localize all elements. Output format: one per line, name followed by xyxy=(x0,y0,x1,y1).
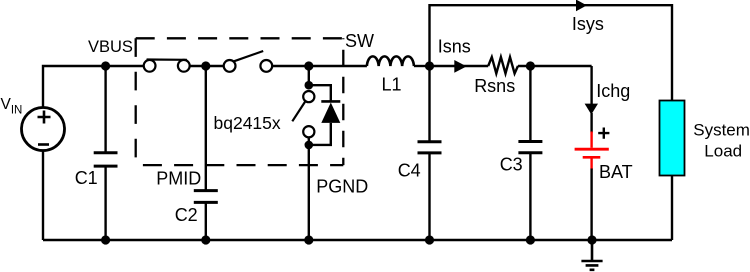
node PMID junction dot xyxy=(201,61,210,70)
svg-text:PGND: PGND xyxy=(316,176,368,196)
ground rail xyxy=(43,239,672,241)
VIN plus sign xyxy=(38,111,51,124)
diode body cathode bar xyxy=(321,100,340,103)
battery BAT negative plate xyxy=(583,156,601,159)
svg-text:Isns: Isns xyxy=(438,37,471,57)
wire C3 lower lead xyxy=(529,153,531,240)
wire diode branch top xyxy=(309,85,331,101)
wire Isns segment xyxy=(430,65,489,67)
switch high-side 1 blade (closed) xyxy=(147,58,187,60)
battery BAT positive plate xyxy=(575,148,609,151)
switch high-side 1 left terminal xyxy=(144,60,156,72)
Isns arrow xyxy=(454,60,466,73)
svg-text:C2: C2 xyxy=(175,205,198,225)
switch low-side top terminal xyxy=(303,91,314,102)
wire C3 upper lead xyxy=(529,66,531,142)
wire battery to ground rail xyxy=(590,169,592,241)
node ground rail dot BAT xyxy=(587,235,596,244)
node Isns junction dot xyxy=(425,61,434,70)
wire C4 lower lead xyxy=(428,153,430,240)
wire VIN bottom to ground rail xyxy=(42,151,44,241)
svg-text:Load: Load xyxy=(704,141,742,160)
svg-text:VBUS: VBUS xyxy=(88,38,133,56)
switch high-side 2 left terminal xyxy=(224,60,236,72)
svg-text:C4: C4 xyxy=(398,161,421,181)
VIN minus sign xyxy=(38,143,49,146)
voltage source VIN xyxy=(22,108,65,151)
diode body triangle xyxy=(321,103,340,123)
wire low-side bottom lead to PGND xyxy=(308,137,310,240)
switch high-side 2 blade (open) xyxy=(234,51,263,61)
capacitor C4 xyxy=(418,142,442,153)
wire L1 to Isns node xyxy=(414,65,430,67)
wire battery branch mid xyxy=(590,113,592,133)
inductor L1 xyxy=(367,56,414,66)
node SW junction dot xyxy=(304,61,313,70)
svg-text:Isys: Isys xyxy=(572,14,604,34)
svg-text:Ichg: Ichg xyxy=(596,81,630,101)
capacitor C3 xyxy=(518,142,542,153)
capacitor C2 xyxy=(194,191,218,203)
wire Rsns to battery corner xyxy=(518,65,592,67)
wire battery branch upper xyxy=(590,66,592,104)
wire C4 upper lead xyxy=(428,66,430,142)
IC boundary bq2415x dashed box xyxy=(136,38,344,165)
wire to SW node xyxy=(272,65,367,67)
wire PMID vertical lead xyxy=(205,66,207,191)
node ground rail dot C4 xyxy=(425,235,434,244)
svg-text:PMID: PMID xyxy=(156,168,201,188)
ground symbol xyxy=(581,240,602,270)
node diode top junction dot xyxy=(305,81,314,90)
svg-text:C1: C1 xyxy=(75,168,98,188)
svg-text:Rsns: Rsns xyxy=(474,76,515,96)
switch low-side blade (open) xyxy=(292,101,305,121)
wire VIN top riser to VBUS rail xyxy=(43,66,144,108)
wire between switches xyxy=(190,65,224,67)
wire C1 lower lead xyxy=(104,166,106,240)
node ground rail dot PGND xyxy=(304,235,313,244)
svg-text:bq2415x: bq2415x xyxy=(214,113,281,133)
node ground rail dot C2 xyxy=(201,235,210,244)
switch high-side 2 right terminal xyxy=(260,60,272,72)
wire low-side switch top lead xyxy=(308,66,310,85)
svg-text:C3: C3 xyxy=(500,154,523,174)
node VBUS junction dot xyxy=(101,61,110,70)
wire diode branch bottom xyxy=(309,123,331,145)
wire SystemLoad bottom lead xyxy=(671,176,673,241)
node diode bottom junction dot xyxy=(305,141,314,150)
Ichg arrow xyxy=(585,104,598,115)
node ground rail dot C3 xyxy=(526,235,535,244)
wire C1 upper lead xyxy=(104,66,106,153)
battery BAT red lower lead xyxy=(590,159,592,170)
node ground rail dot C1 xyxy=(101,235,110,244)
svg-text:BAT: BAT xyxy=(599,162,633,182)
svg-text:VIN: VIN xyxy=(1,96,23,117)
wire top system rail xyxy=(430,5,673,101)
node C3 junction dot xyxy=(526,61,535,70)
switch low-side bottom terminal xyxy=(303,126,314,137)
resistor Rsns xyxy=(488,57,518,73)
capacitor C1 xyxy=(94,153,118,166)
svg-text:L1: L1 xyxy=(382,75,402,95)
Isys arrow xyxy=(576,0,587,11)
switch high-side 1 right terminal xyxy=(178,60,190,72)
battery plus sign xyxy=(598,128,609,139)
wire C2 lower lead xyxy=(205,202,207,240)
battery BAT red upper lead xyxy=(590,132,592,148)
svg-text:SW: SW xyxy=(345,31,374,51)
svg-text:System: System xyxy=(693,121,750,140)
resistor SystemLoad box xyxy=(660,101,685,176)
